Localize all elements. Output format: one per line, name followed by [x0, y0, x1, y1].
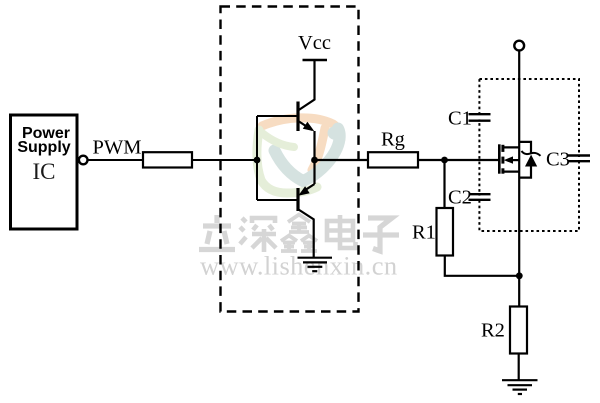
wire driver output [315, 159, 369, 161]
drain terminal circle [514, 41, 524, 51]
svg-text:C2: C2 [448, 187, 472, 209]
wire to driver [192, 159, 257, 161]
node C [441, 157, 448, 164]
wire PWM [88, 159, 144, 161]
resistor R2 [510, 307, 527, 354]
node A [254, 157, 261, 164]
drain-source wire [518, 51, 520, 307]
watermark char shen [240, 218, 276, 252]
node B [311, 157, 318, 164]
svg-text:www.lishenxin.cn: www.lishenxin.cn [200, 251, 398, 281]
mosfet M1 [499, 144, 519, 173]
capacitor C1 [469, 114, 491, 121]
ground G2 [502, 380, 538, 394]
resistor Rg [368, 152, 418, 167]
output terminal circle [79, 156, 88, 165]
capacitor C3 [568, 156, 590, 162]
power supply IC box [11, 115, 78, 229]
svg-text:C1: C1 [448, 108, 472, 130]
watermark char xin [281, 215, 317, 252]
wire gate [418, 159, 499, 161]
resistor R1 [437, 208, 454, 256]
wire R2 to ground [518, 354, 520, 380]
svg-text:PWM: PWM [93, 137, 142, 159]
node D [516, 272, 523, 279]
watermark char dian [327, 215, 356, 248]
Vcc rail [303, 59, 328, 61]
svg-text:IC: IC [33, 159, 56, 184]
driver dashed box [221, 7, 359, 312]
svg-text:Supply: Supply [17, 139, 70, 156]
mosfet dotted box [479, 79, 579, 231]
transistor Q1 NPN [257, 60, 315, 160]
body diode D1 [519, 142, 540, 178]
resistor input [143, 152, 192, 167]
svg-text:R1: R1 [412, 222, 436, 244]
svg-text:Vcc: Vcc [298, 32, 331, 54]
watermark char zi [363, 218, 399, 251]
svg-text:C3: C3 [546, 149, 570, 171]
resistor R1 branch wire [443, 160, 445, 208]
watermark logo shield [257, 118, 345, 193]
svg-text:Rg: Rg [381, 129, 405, 151]
watermark char li [199, 215, 235, 250]
capacitor C2 [469, 194, 491, 200]
base rail wire [256, 116, 258, 200]
svg-text:R2: R2 [481, 320, 505, 342]
wire R1 to node D [445, 256, 520, 276]
ground G1 [298, 258, 333, 272]
transistor Q2 PNP [257, 160, 315, 258]
